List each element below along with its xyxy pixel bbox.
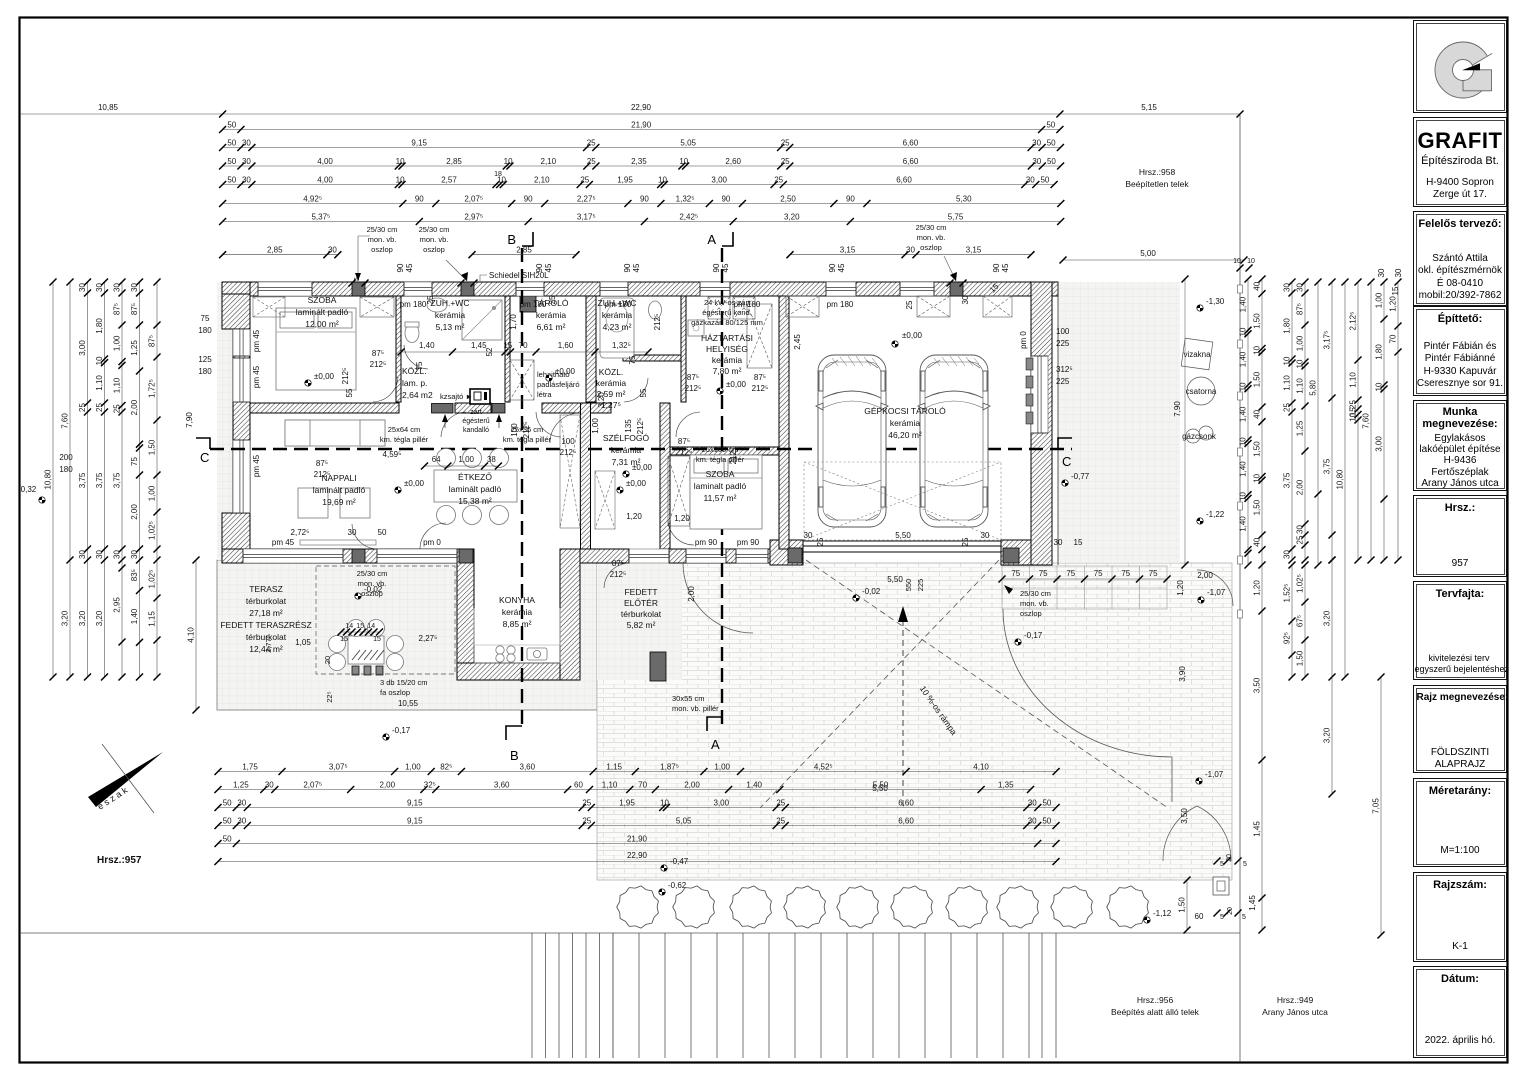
svg-text:3,15: 3,15: [966, 246, 982, 255]
svg-text:pm 45: pm 45: [252, 454, 261, 477]
left outer wall band: [233, 296, 250, 549]
svg-text:2,85: 2,85: [516, 246, 532, 255]
svg-text:3,17⁵: 3,17⁵: [1323, 331, 1332, 350]
garage east window shutter marks: [1026, 358, 1033, 424]
svg-text:10: 10: [1239, 437, 1248, 446]
dim chain bottom E: [215, 834, 1060, 847]
svg-text:1,60: 1,60: [558, 341, 574, 350]
plot side line 7.90: [1184, 279, 1186, 565]
svg-text:oszlop: oszlop: [423, 245, 445, 254]
bed szoba2: [690, 455, 762, 529]
paver grid 75cm: [1002, 566, 1167, 609]
label gazkazan: [691, 298, 763, 327]
svg-text:55: 55: [345, 388, 354, 397]
label window 100-225: [1056, 327, 1070, 348]
svg-text:14: 14: [367, 623, 375, 630]
svg-text:3,75: 3,75: [95, 472, 104, 488]
svg-text:90: 90: [396, 263, 405, 272]
dim chain pavers 75: [999, 569, 1171, 583]
svg-text:10,85: 10,85: [98, 103, 119, 112]
svg-text:90: 90: [712, 263, 721, 272]
level front: [659, 881, 687, 895]
svg-text:pm 180: pm 180: [605, 300, 632, 309]
shower zuh1: [462, 300, 502, 340]
brick pier 25x64: [432, 404, 454, 414]
svg-text:30: 30: [1296, 283, 1305, 292]
dim chain terrace table: [338, 623, 384, 636]
svg-text:-1,12: -1,12: [1153, 909, 1172, 918]
window szoba2 south-1: [686, 549, 726, 563]
svg-text:83⁵: 83⁵: [130, 569, 139, 581]
open double door etkezo arc: [420, 523, 446, 549]
svg-text:30: 30: [804, 531, 813, 540]
svg-text:1,10: 1,10: [113, 377, 122, 393]
svg-text:1,25: 1,25: [1296, 420, 1305, 436]
gazcsonk symbol: [1186, 429, 1200, 443]
level etkezo: [617, 479, 647, 493]
kandallo flue box: [470, 389, 490, 404]
level garage: [892, 331, 923, 347]
svg-text:1,50: 1,50: [1253, 499, 1262, 515]
label fa oszlop: [380, 678, 428, 697]
svg-text:C: C: [200, 450, 209, 465]
svg-text:1,00: 1,00: [591, 418, 600, 434]
svg-text:2,07⁵: 2,07⁵: [464, 194, 483, 203]
svg-text:-0,32: -0,32: [18, 485, 37, 494]
svg-text:50: 50: [227, 157, 236, 166]
svg-text:3,00: 3,00: [1375, 436, 1384, 452]
plot boundary dim line top: [20, 113, 1240, 115]
left chain 4,10: [187, 557, 200, 714]
left chain 5: [113, 279, 126, 681]
svg-text:212⁵: 212⁵: [676, 448, 693, 457]
callout leaders: [358, 236, 956, 281]
north arrow eszak: [88, 744, 163, 813]
svg-text:38: 38: [487, 455, 496, 464]
entry front wall: [580, 549, 629, 563]
svg-text:212⁵: 212⁵: [314, 470, 331, 479]
door dim pair 3: [676, 437, 693, 457]
svg-text:mon. vb.: mon. vb.: [368, 235, 397, 244]
svg-text:kerámia: kerámia: [602, 310, 633, 320]
svg-text:Hrsz.:957: Hrsz.:957: [97, 855, 142, 866]
level terasz: [355, 585, 383, 599]
svg-text:5,13 m²: 5,13 m²: [436, 322, 465, 332]
svg-text:pm 180: pm 180: [827, 300, 854, 309]
svg-text:70: 70: [638, 780, 647, 789]
sofa nappali: [285, 420, 385, 518]
label oszlop callout 3: [916, 223, 947, 252]
svg-text:4,52⁵: 4,52⁵: [814, 762, 833, 771]
svg-text:25: 25: [774, 175, 783, 184]
svg-text:5,15: 5,15: [1141, 103, 1157, 112]
svg-text:3,15: 3,15: [840, 246, 856, 255]
gate cluster ticks: [1214, 910, 1221, 917]
garage cabinet 2: [917, 296, 950, 317]
svg-text:21,90: 21,90: [631, 120, 652, 129]
svg-text:1,75: 1,75: [242, 762, 258, 771]
svg-text:2,50: 2,50: [780, 194, 796, 203]
svg-text:45: 45: [405, 263, 414, 272]
svg-text:térburkolat: térburkolat: [621, 609, 662, 619]
svg-text:70: 70: [1389, 334, 1398, 343]
svg-text:10,80: 10,80: [1336, 469, 1345, 490]
svg-text:212⁵: 212⁵: [752, 384, 769, 393]
svg-text:6,60: 6,60: [903, 138, 919, 147]
svg-text:létra: létra: [537, 390, 552, 399]
svg-text:90: 90: [415, 194, 424, 203]
svg-text:30: 30: [348, 528, 357, 537]
svg-text:kzsajtó ►: kzsajtó ►: [440, 392, 473, 401]
svg-text:ZUH.+WC: ZUH.+WC: [431, 298, 470, 308]
svg-text:30: 30: [1026, 175, 1035, 184]
dim chain row5: [219, 175, 1058, 188]
room label kozl1: [402, 366, 433, 400]
svg-text:pm 180: pm 180: [400, 300, 427, 309]
right chain m5: [1375, 279, 1388, 564]
wardrobe szoba1 right: [360, 297, 394, 317]
garage front wall left: [770, 540, 803, 565]
svg-text:100: 100: [561, 437, 575, 446]
svg-text:8,85 m²: 8,85 m²: [503, 619, 532, 629]
ramp arrow dashed: [898, 606, 908, 810]
svg-text:4,10: 4,10: [973, 762, 989, 771]
svg-text:Arany János utca: Arany János utca: [1262, 1007, 1328, 1017]
svg-text:3,20: 3,20: [78, 610, 87, 626]
svg-text:-0,02: -0,02: [862, 587, 881, 596]
corridor wall c: [542, 403, 611, 413]
title block logo box: [1413, 20, 1507, 113]
svg-text:18: 18: [494, 171, 502, 178]
svg-text:25/30 cm: 25/30 cm: [419, 225, 450, 234]
svg-text:92⁵: 92⁵: [1283, 632, 1292, 644]
rc column 25/30 bottom-1: [352, 549, 365, 563]
svg-text:3,00: 3,00: [714, 798, 730, 807]
svg-text:30: 30: [130, 550, 139, 559]
section line B-B dashed: [521, 248, 523, 726]
svg-text:30: 30: [242, 175, 251, 184]
door dim 100 szelfogo: [560, 437, 577, 457]
svg-text:1,00: 1,00: [148, 485, 157, 501]
svg-text:KONYHA: KONYHA: [499, 595, 535, 605]
svg-text:mon. vb. pillér: mon. vb. pillér: [672, 704, 719, 713]
svg-text:5: 5: [354, 277, 361, 281]
door swing tarolo: [536, 412, 561, 437]
svg-text:50: 50: [1047, 157, 1056, 166]
svg-text:225: 225: [1056, 339, 1070, 348]
svg-text:Beépítetlen telek: Beépítetlen telek: [1125, 179, 1189, 189]
svg-text:6,60: 6,60: [903, 157, 919, 166]
svg-text:mon. vb.: mon. vb.: [917, 233, 946, 242]
gate post square: [1213, 877, 1229, 895]
svg-text:90: 90: [623, 263, 632, 272]
svg-text:20: 20: [323, 656, 332, 664]
svg-text:9,15: 9,15: [407, 816, 423, 825]
dim 5,00 line: [1063, 259, 1244, 261]
svg-text:22⁵: 22⁵: [325, 691, 334, 702]
svg-text:SZOBA: SZOBA: [308, 295, 337, 305]
left chain 6: [130, 279, 143, 681]
top outer wall: [222, 282, 1058, 296]
svg-text:15: 15: [373, 636, 381, 643]
svg-text:10: 10: [1296, 359, 1305, 368]
title block munka megnevezese: [1413, 400, 1507, 491]
door dim pair 0: [370, 349, 387, 369]
svg-text:3,00: 3,00: [711, 175, 727, 184]
dim 10 10 ticks right: [1237, 265, 1244, 272]
svg-text:1,32⁵: 1,32⁵: [676, 194, 695, 203]
svg-text:pm 45: pm 45: [252, 329, 261, 352]
szelfogo west wall: [581, 403, 591, 549]
svg-text:75: 75: [1066, 569, 1075, 578]
svg-text:2,42⁵: 2,42⁵: [679, 212, 698, 221]
svg-text:64: 64: [432, 455, 441, 464]
svg-text:1,87⁵: 1,87⁵: [660, 762, 679, 771]
svg-text:212⁵: 212⁵: [341, 368, 350, 385]
svg-text:5,05: 5,05: [680, 138, 696, 147]
svg-text:1,05: 1,05: [295, 638, 311, 647]
fence posts on boundary: [1238, 285, 1243, 618]
svg-text:2,95: 2,95: [113, 597, 122, 613]
svg-text:212⁵: 212⁵: [653, 314, 662, 331]
door swing szoba1: [373, 377, 398, 402]
svg-text:212⁵: 212⁵: [729, 448, 738, 465]
svg-text:kerámia: kerámia: [502, 607, 533, 617]
svg-text:1,00: 1,00: [714, 762, 730, 771]
svg-text:laminált padló: laminált padló: [296, 307, 349, 317]
right chain m3: [1323, 279, 1336, 564]
svg-text:30: 30: [265, 780, 274, 789]
partition zuh2-kozl2: [623, 355, 681, 361]
svg-text:12,00 m²: 12,00 m²: [305, 319, 339, 329]
garage cabinet 1: [786, 296, 819, 317]
right chain 7,05: [1372, 674, 1385, 939]
corridor wall a: [250, 403, 399, 413]
door swing szelfogo-kozl: [550, 413, 580, 443]
svg-text:90: 90: [640, 194, 649, 203]
svg-text:4,00: 4,00: [317, 175, 333, 184]
svg-text:1,95: 1,95: [617, 175, 633, 184]
svg-text:1,40: 1,40: [1239, 516, 1248, 532]
svg-text:2,77⁵: 2,77⁵: [264, 635, 273, 653]
svg-text:4,10: 4,10: [187, 627, 196, 643]
svg-text:km. tégla pillér: km. tégla pillér: [380, 435, 429, 444]
GRAFIT G logo: [1435, 42, 1497, 98]
svg-text:14: 14: [345, 623, 353, 630]
svg-text:1,50: 1,50: [1253, 371, 1262, 387]
svg-text:25: 25: [587, 157, 596, 166]
ramp dashed path left: [806, 560, 1168, 808]
svg-text:10: 10: [679, 157, 688, 166]
window nappali south: [243, 549, 343, 563]
dim chain row6: [219, 194, 1064, 207]
window szoba1 north: [258, 282, 312, 296]
arrows to columns: [355, 272, 957, 281]
svg-text:A: A: [707, 232, 716, 247]
svg-text:pm 45: pm 45: [272, 538, 295, 547]
svg-text:3 db 15/20 cm: 3 db 15/20 cm: [380, 678, 428, 687]
window szoba1 west lower: [233, 358, 250, 402]
svg-text:10: 10: [1283, 356, 1292, 365]
svg-text:2,00: 2,00: [130, 399, 139, 415]
glass door nappali-terrace: [377, 549, 457, 563]
svg-text:3,50: 3,50: [1253, 677, 1262, 693]
bottom wall living room section: [222, 549, 462, 563]
svg-text:25: 25: [426, 295, 435, 304]
level nappali: [395, 479, 425, 493]
dim chain bottom B: [215, 780, 1035, 793]
level szelfogo: [623, 463, 653, 477]
room label etkezo: [449, 472, 502, 506]
label mon vb oszlop terasz: [357, 569, 388, 598]
svg-text:25/30 cm: 25/30 cm: [367, 225, 398, 234]
svg-text:2,27⁵: 2,27⁵: [419, 634, 438, 643]
svg-text:15: 15: [356, 623, 364, 630]
svg-text:212⁵: 212⁵: [610, 570, 627, 579]
fence elevation lines: [532, 933, 1056, 1058]
svg-text:30: 30: [1028, 816, 1037, 825]
svg-text:fa oszlop: fa oszlop: [380, 688, 410, 697]
partition szoba1-zuh1: [396, 296, 401, 402]
svg-text:10: 10: [1349, 412, 1358, 421]
svg-text:15: 15: [503, 341, 512, 350]
bottom wall left corner: [222, 535, 250, 563]
svg-text:212⁵: 212⁵: [370, 360, 387, 369]
svg-text:kerámia: kerámia: [712, 355, 743, 365]
wall tarolo-zuh2: [586, 296, 596, 402]
svg-text:-1,07: -1,07: [1205, 770, 1224, 779]
svg-text:4,92⁵: 4,92⁵: [303, 194, 322, 203]
svg-text:padlásfeljáró: padlásfeljáró: [537, 380, 580, 389]
svg-text:87⁵: 87⁵: [113, 303, 122, 315]
label padlasfeljaro: [537, 370, 580, 399]
label window 312-225: [1056, 365, 1073, 386]
svg-text:50: 50: [223, 816, 232, 825]
svg-text:10: 10: [1247, 258, 1255, 265]
svg-text:10: 10: [1253, 345, 1262, 354]
svg-text:1,20: 1,20: [1176, 580, 1185, 596]
svg-text:B: B: [510, 748, 519, 763]
gate swing arcs: [1163, 806, 1231, 861]
title block meretarany: [1413, 778, 1507, 867]
svg-text:30: 30: [242, 138, 251, 147]
svg-text:87⁵: 87⁵: [148, 335, 157, 347]
svg-text:laminált padló: laminált padló: [449, 484, 502, 494]
label hrsz956: [1111, 995, 1200, 1017]
rc column 25/30 garage-r: [1003, 548, 1019, 563]
svg-text:45: 45: [1001, 263, 1010, 272]
svg-text:50: 50: [223, 798, 232, 807]
window tarolo north: [516, 282, 544, 296]
svg-text:5,82 m²: 5,82 m²: [627, 620, 656, 630]
svg-text:25: 25: [781, 138, 790, 147]
svg-text:5,50: 5,50: [887, 575, 903, 584]
room label zuh-wc2: [598, 298, 637, 332]
svg-text:212⁵: 212⁵: [522, 422, 531, 439]
kitchen east wall: [560, 549, 580, 680]
svg-text:gázcsonk: gázcsonk: [1182, 432, 1217, 441]
svg-text:30x55 cm: 30x55 cm: [672, 694, 705, 703]
svg-text:4,23 m²: 4,23 m²: [603, 322, 632, 332]
svg-text:1,40: 1,40: [1239, 461, 1248, 477]
section line A-A dashed: [721, 248, 723, 726]
closet szelfogo: [595, 471, 615, 529]
svg-text:5,00: 5,00: [1140, 249, 1156, 258]
svg-text:mon. vb.: mon. vb.: [420, 235, 449, 244]
paving strip left of building: [217, 282, 233, 560]
right outer wall: [1031, 282, 1052, 565]
svg-text:46,20 m²: 46,20 m²: [888, 430, 922, 440]
shelf tarolo: [510, 360, 534, 400]
label window 75-180: [198, 314, 212, 335]
svg-text:laminalt padló: laminalt padló: [694, 481, 747, 491]
svg-text:pm 180: pm 180: [734, 300, 761, 309]
svg-text:25x64 cm: 25x64 cm: [388, 425, 421, 434]
svg-text:50: 50: [1046, 120, 1055, 129]
window zuh1 north: [404, 282, 432, 296]
svg-text:11,57 m²: 11,57 m²: [704, 493, 737, 503]
dim chain bottom C: [215, 798, 1060, 811]
level street2: [1197, 510, 1225, 524]
label tegla piller 25x64: [380, 425, 429, 444]
svg-text:15: 15: [1391, 286, 1400, 295]
svg-text:1,50: 1,50: [1253, 313, 1262, 329]
svg-text:90: 90: [721, 194, 730, 203]
tv board nappali: [300, 540, 376, 545]
svg-text:225: 225: [1056, 377, 1070, 386]
svg-text:30: 30: [1028, 798, 1037, 807]
label hrsz958: [1125, 167, 1189, 189]
svg-text:1,10: 1,10: [95, 375, 104, 391]
svg-text:1,40: 1,40: [1239, 406, 1248, 422]
svg-text:1,00: 1,00: [113, 335, 122, 351]
svg-text:75: 75: [1039, 569, 1048, 578]
svg-text:kerámia: kerámia: [596, 378, 627, 388]
svg-text:1,10: 1,10: [602, 780, 618, 789]
svg-text:-0,47: -0,47: [670, 857, 689, 866]
svg-text:1,02⁵: 1,02⁵: [148, 521, 157, 540]
covered terrace overhang dashed: [316, 566, 455, 674]
svg-text:3,60: 3,60: [520, 762, 536, 771]
svg-text:5,05: 5,05: [676, 816, 692, 825]
section line C-C dashed: [210, 448, 1072, 450]
svg-text:45: 45: [837, 263, 846, 272]
left outer wall: [222, 282, 250, 296]
svg-text:25: 25: [113, 404, 122, 413]
svg-text:1,00: 1,00: [458, 455, 474, 464]
svg-text:2,97⁵: 2,97⁵: [464, 212, 483, 221]
right wall outer face line: [1057, 282, 1059, 565]
right chain 5,80: [1309, 279, 1322, 569]
svg-text:22,90: 22,90: [631, 103, 652, 112]
level driveway3: [1062, 472, 1090, 486]
svg-text:1,02⁵: 1,02⁵: [1296, 574, 1305, 593]
svg-text:6,60: 6,60: [896, 175, 912, 184]
svg-text:TERASZ: TERASZ: [249, 584, 283, 594]
dim chain bottom D: [215, 816, 1060, 829]
svg-text:-1,30: -1,30: [1206, 297, 1225, 306]
right chain m3 lower: [1323, 557, 1336, 798]
svg-text:±0,00: ±0,00: [726, 380, 747, 389]
svg-text:KÖZL.: KÖZL.: [599, 367, 624, 377]
svg-text:1,20: 1,20: [674, 514, 690, 523]
svg-text:30: 30: [1032, 138, 1041, 147]
closet left of szelfogo: [560, 415, 580, 528]
svg-text:1,00: 1,00: [1296, 335, 1305, 351]
svg-text:40: 40: [1253, 281, 1262, 290]
svg-text:90: 90: [846, 194, 855, 203]
svg-text:1,32⁵: 1,32⁵: [612, 341, 631, 350]
